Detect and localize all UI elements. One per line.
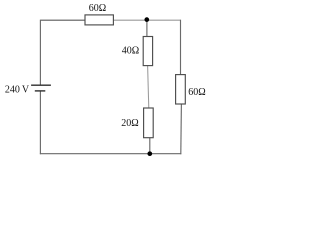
svg-text:20Ω: 20Ω <box>121 118 138 129</box>
svg-text:60Ω: 60Ω <box>188 87 205 98</box>
svg-text:60Ω: 60Ω <box>89 3 106 14</box>
svg-text:40Ω: 40Ω <box>122 46 139 57</box>
svg-text:240 V: 240 V <box>5 85 30 96</box>
